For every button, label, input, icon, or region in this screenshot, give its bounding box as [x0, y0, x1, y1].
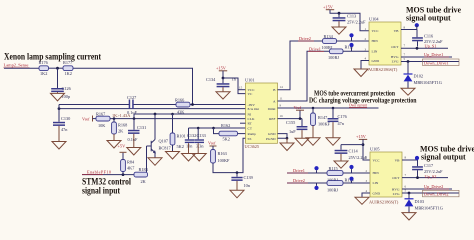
svg-text:C127: C127	[127, 95, 137, 100]
svg-text:LVG: LVG	[393, 192, 400, 196]
svg-text:Drive1: Drive1	[309, 46, 321, 51]
resistor R168	[112, 117, 128, 134]
capacitor C130	[53, 116, 70, 132]
ground below C134	[216, 87, 230, 99]
svg-text:10n: 10n	[244, 183, 251, 188]
svg-text:R101: R101	[177, 134, 186, 139]
wire HVG / Up_Drive1	[401, 56, 452, 58]
wire CLK net	[110, 118, 246, 120]
svg-text:Vref: Vref	[82, 117, 90, 122]
svg-text:signal output: signal output	[406, 14, 451, 23]
svg-text:R177: R177	[63, 60, 73, 65]
gate driver U105	[369, 147, 402, 205]
wire M1a to -INV	[59, 104, 129, 106]
wire +15V to VCC/VC	[223, 78, 246, 94]
svg-text:C132: C132	[187, 133, 196, 138]
ground below C155	[295, 130, 309, 146]
resistor R117	[328, 45, 355, 61]
svg-text:C117: C117	[424, 163, 434, 168]
svg-text:C131: C131	[137, 125, 146, 130]
svg-text:BC817: BC817	[159, 146, 172, 151]
svg-text:Up_S2: Up_S2	[425, 174, 437, 179]
capacitor C116	[412, 30, 443, 47]
junction dot feedback node	[191, 103, 194, 106]
svg-text:R115: R115	[329, 166, 338, 171]
svg-text:Drive2: Drive2	[299, 36, 311, 41]
svg-text:HIN: HIN	[373, 171, 380, 175]
svg-text:PGND: PGND	[266, 137, 276, 141]
ground below R147	[306, 126, 320, 146]
svg-text:Up_Drive1: Up_Drive1	[424, 52, 443, 57]
capacitor C155	[286, 117, 307, 134]
svg-text:14: 14	[280, 85, 284, 89]
svg-text:100RJ: 100RJ	[327, 187, 338, 192]
resistor R163	[211, 146, 230, 163]
svg-text:+15V: +15V	[216, 65, 227, 70]
svg-text:LIN: LIN	[372, 50, 378, 54]
svg-text:Ilimit: Ilimit	[268, 107, 276, 111]
svg-text:R134: R134	[324, 34, 334, 39]
pin stub RT	[240, 122, 246, 124]
svg-text:OUT: OUT	[391, 45, 399, 49]
capacitor C134	[206, 77, 237, 88]
svg-text:Q107: Q107	[159, 139, 169, 144]
svg-text:EnablePF10: EnablePF10	[87, 169, 111, 174]
svg-text:1K2: 1K2	[65, 71, 72, 76]
svg-text:Drive2: Drive2	[293, 178, 305, 183]
wire REF net	[278, 118, 303, 120]
wire CT net	[189, 127, 246, 129]
svg-text:signal input: signal input	[82, 187, 121, 197]
wire U104 GND	[361, 61, 369, 70]
capacitor C132	[185, 128, 197, 149]
wire OUT / Up_S2	[402, 177, 448, 179]
wire +15V to VCC	[330, 10, 369, 31]
svg-text:47n: 47n	[61, 127, 68, 132]
resistor R147	[311, 107, 331, 127]
marker dots top driver inputs	[349, 33, 353, 37]
svg-text:C134: C134	[206, 77, 216, 82]
node junction sense/C126	[56, 67, 59, 70]
svg-text:VCC: VCC	[372, 29, 380, 33]
svg-text:C114: C114	[349, 149, 359, 154]
svg-text:47n: 47n	[338, 121, 345, 126]
capacitor C139	[231, 171, 252, 188]
ground below C132	[182, 143, 196, 161]
svg-text:REF: REF	[269, 117, 275, 121]
wire U105 GND	[362, 193, 370, 197]
wire GND/PGND tie	[278, 134, 288, 139]
ground below C113	[332, 21, 346, 34]
wire A output	[278, 51, 330, 101]
wire sense net	[4, 67, 39, 69]
ground below R101	[166, 152, 180, 160]
svg-text:10K: 10K	[98, 123, 106, 128]
power Vref flag on REF	[299, 111, 301, 119]
svg-text:+5V: +5V	[118, 144, 127, 149]
wire VB	[401, 29, 417, 31]
junction base/R184	[122, 173, 125, 176]
svg-text:C133: C133	[197, 133, 206, 138]
svg-text:11: 11	[280, 96, 283, 100]
svg-text:U105: U105	[370, 147, 380, 152]
resistor R184 pullup	[121, 153, 136, 175]
resistor R176	[39, 60, 49, 76]
svg-text:HVG: HVG	[391, 55, 399, 59]
wire NI link	[134, 113, 246, 115]
resistor R115	[327, 166, 343, 182]
capacitor C114	[335, 145, 368, 160]
wire HVG / Up_Drive2	[402, 188, 452, 190]
wire vertical to C130	[58, 105, 60, 122]
svg-text:C139: C139	[244, 175, 253, 180]
svg-text:AUIRS2186S(T): AUIRS2186S(T)	[369, 200, 399, 205]
svg-text:1K2: 1K2	[40, 71, 47, 76]
svg-text:Vref: Vref	[208, 141, 216, 146]
svg-text:C116: C116	[424, 34, 434, 39]
svg-text:AUIRS2186S(T): AUIRS2186S(T)	[368, 67, 398, 72]
ground below R168	[107, 134, 121, 148]
svg-text:R166: R166	[175, 98, 185, 103]
resistor R177	[63, 60, 73, 76]
svg-text:1K>1.43A: 1K>1.43A	[112, 113, 131, 118]
svg-text:VB: VB	[395, 159, 401, 163]
capacitor C126	[51, 68, 71, 99]
svg-text:Ramp: Ramp	[248, 132, 257, 136]
resistor R183 series base	[134, 167, 148, 184]
svg-text:5K2: 5K2	[177, 144, 184, 149]
svg-text:Vref: Vref	[294, 105, 302, 110]
svg-text:Down_Drive1: Down_Drive1	[424, 60, 449, 65]
ground below C131	[127, 134, 141, 155]
svg-text:R167: R167	[96, 112, 106, 117]
svg-text:100KF: 100KF	[218, 158, 231, 163]
svg-text:15: 15	[239, 86, 243, 90]
svg-text:Drive1: Drive1	[293, 168, 305, 173]
svg-text:C126: C126	[62, 86, 72, 91]
svg-text:Xenon lamp sampling current: Xenon lamp sampling current	[4, 52, 102, 62]
svg-text:+15V: +15V	[356, 134, 367, 139]
wire Ilimit / Over current net	[278, 107, 379, 109]
ground below C126	[51, 92, 65, 101]
wire Q107 base	[146, 146, 148, 175]
svg-text:R183: R183	[139, 167, 148, 172]
svg-text:signal output: signal output	[421, 153, 466, 162]
ground below U105	[355, 197, 369, 204]
resistor R166	[175, 98, 190, 115]
ground below U104	[354, 69, 368, 77]
resistor R162 CT-Ramp	[212, 123, 245, 142]
wire B output	[278, 41, 323, 90]
resistor R114	[327, 177, 355, 192]
ground below D102	[401, 88, 415, 95]
svg-text:+15V: +15V	[323, 4, 334, 9]
svg-text:1uF: 1uF	[289, 129, 296, 134]
svg-text:25V/2.2uF: 25V/2.2uF	[347, 20, 366, 25]
ground below C114	[334, 154, 348, 168]
svg-text:5K2: 5K2	[223, 137, 230, 142]
svg-text:100KF: 100KF	[318, 122, 331, 127]
svg-text:CLK: CLK	[248, 117, 255, 121]
svg-text:GND: GND	[373, 192, 381, 196]
wire HIN feed	[337, 40, 370, 42]
svg-text:OUT: OUT	[392, 176, 400, 180]
svg-text:D102: D102	[414, 74, 424, 79]
svg-text:SS: SS	[248, 137, 252, 141]
svg-text:R147: R147	[318, 115, 328, 120]
svg-text:R163: R163	[218, 151, 227, 156]
svg-text:U101: U101	[245, 78, 255, 83]
wire OUT / Up_S1	[401, 47, 448, 49]
svg-text:Up_Drive2: Up_Drive2	[424, 184, 443, 189]
ground below U101	[280, 138, 294, 150]
ground below C130	[52, 126, 66, 149]
svg-text:E/A Out: E/A Out	[248, 107, 260, 111]
svg-text:3.3n: 3.3n	[196, 144, 204, 149]
svg-text:VCC: VCC	[373, 159, 381, 163]
ground below C133	[192, 143, 206, 161]
svg-text:C113: C113	[347, 14, 356, 19]
capacitor C176	[328, 107, 348, 126]
wire LVG / Down_Drive1	[401, 61, 459, 63]
svg-text:MBR1045FT1G: MBR1045FT1G	[414, 80, 442, 85]
ground below C139	[230, 181, 244, 198]
svg-text:UC3625: UC3625	[245, 144, 260, 149]
svg-text:10n: 10n	[186, 144, 193, 149]
capacitor C117	[412, 160, 443, 178]
capacitor C127	[127, 95, 138, 115]
svg-text:LVG: LVG	[392, 60, 399, 64]
wire lower LIN feed	[287, 182, 327, 184]
wire VB lower	[402, 159, 418, 161]
ground below D103	[402, 213, 416, 220]
svg-text:HVG: HVG	[392, 187, 400, 191]
capacitor C131	[128, 119, 147, 142]
marker dots lower driver inputs	[314, 166, 318, 170]
wire LVG / Down_Drive2	[402, 192, 459, 194]
svg-text:Lamp2_Sense: Lamp2_Sense	[4, 63, 29, 68]
wire lower HIN feed	[287, 172, 327, 174]
wire M1b to E/A Out	[59, 108, 246, 110]
svg-text:16: 16	[280, 114, 284, 118]
ground below C176	[326, 122, 340, 145]
svg-text:R176: R176	[39, 60, 49, 65]
svg-text:VC: VC	[248, 92, 254, 96]
resistor R134	[322, 34, 337, 50]
svg-text:D103: D103	[415, 199, 425, 204]
svg-text:4K7: 4K7	[127, 166, 135, 171]
diode D102	[404, 62, 442, 89]
svg-text:R168: R168	[118, 123, 127, 128]
wire +15V to VCC	[363, 139, 370, 160]
svg-text:R84: R84	[127, 160, 135, 165]
svg-text:100RJ: 100RJ	[328, 55, 339, 60]
svg-text:LIN: LIN	[373, 181, 379, 185]
transistor Q107	[147, 113, 172, 158]
wire SS net	[213, 138, 246, 172]
svg-text:GND: GND	[268, 132, 276, 136]
gate driver U104	[368, 17, 401, 73]
svg-text:Down_Drive2: Down_Drive2	[424, 192, 449, 197]
capacitor C133	[195, 127, 206, 149]
diode D103	[405, 193, 443, 213]
capacitor C113	[333, 13, 367, 24]
ground below Q107 emitter	[148, 158, 162, 166]
svg-text:C155: C155	[286, 120, 295, 125]
svg-text:MBR1045FT1G: MBR1045FT1G	[415, 206, 443, 211]
resistor R101	[170, 113, 186, 152]
svg-text:0.1uF: 0.1uF	[128, 137, 139, 142]
svg-text:2K: 2K	[118, 129, 124, 134]
svg-text:C130: C130	[61, 116, 70, 121]
svg-text:GND: GND	[372, 59, 380, 63]
svg-text:HIN: HIN	[372, 39, 379, 43]
svg-text:U104: U104	[369, 17, 379, 22]
svg-text:Up_S1: Up_S1	[425, 44, 437, 49]
resistor R167	[96, 112, 110, 129]
svg-text:R162: R162	[221, 123, 230, 128]
op-amp/controller U101 UC3625	[245, 78, 278, 149]
wire LIN feed	[343, 50, 369, 52]
svg-text:DC charging voltage overvoltag: DC charging voltage overvoltage protecti…	[309, 97, 417, 104]
svg-text:VB: VB	[394, 29, 400, 33]
svg-text:2K: 2K	[141, 179, 147, 184]
svg-text:C176: C176	[338, 114, 348, 119]
